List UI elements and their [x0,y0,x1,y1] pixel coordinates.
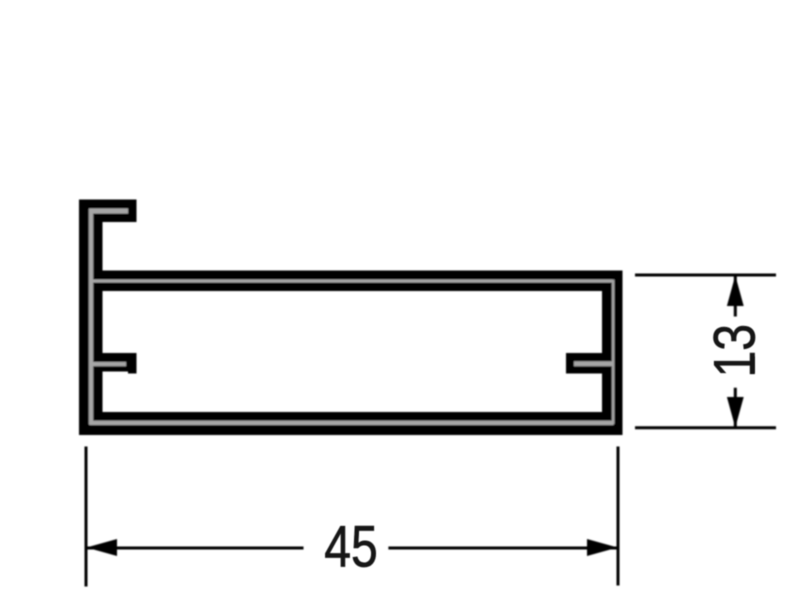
svg-text:45: 45 [324,515,378,579]
svg-text:13: 13 [703,324,767,378]
